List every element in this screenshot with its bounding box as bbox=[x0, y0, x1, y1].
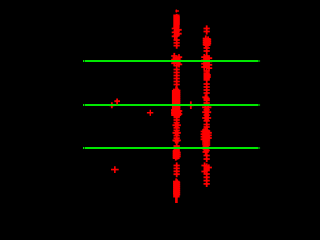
red marker column 1 blob cores bbox=[171, 15, 181, 204]
isolated marker C (x150 y113) bbox=[147, 110, 153, 116]
green line bottom end dot bbox=[259, 147, 260, 149]
red marker column 2 blob cores bbox=[202, 38, 210, 141]
green line middle end dot bbox=[259, 104, 260, 106]
green line bottom start dot bbox=[83, 147, 84, 149]
green line middle start dot bbox=[83, 104, 84, 106]
red marker column 2 bbox=[201, 25, 213, 187]
green line bottom bbox=[85, 147, 259, 149]
green reference lines bbox=[83, 60, 260, 149]
isolated marker D (x114 y169) bbox=[111, 166, 119, 173]
isolated marker E (x191 y105, behind middle line) bbox=[188, 101, 194, 109]
isolated marker B (x117 y101) bbox=[114, 99, 120, 105]
isolated marker A (x112 y106, behind middle line) bbox=[110, 102, 115, 108]
red marker column 1 top mark bbox=[175, 10, 179, 13]
green line middle bbox=[85, 104, 259, 106]
green line top end dot bbox=[259, 60, 260, 62]
green line top start dot bbox=[83, 60, 84, 62]
red marker column 1 bbox=[171, 14, 182, 198]
green line top bbox=[85, 60, 259, 62]
